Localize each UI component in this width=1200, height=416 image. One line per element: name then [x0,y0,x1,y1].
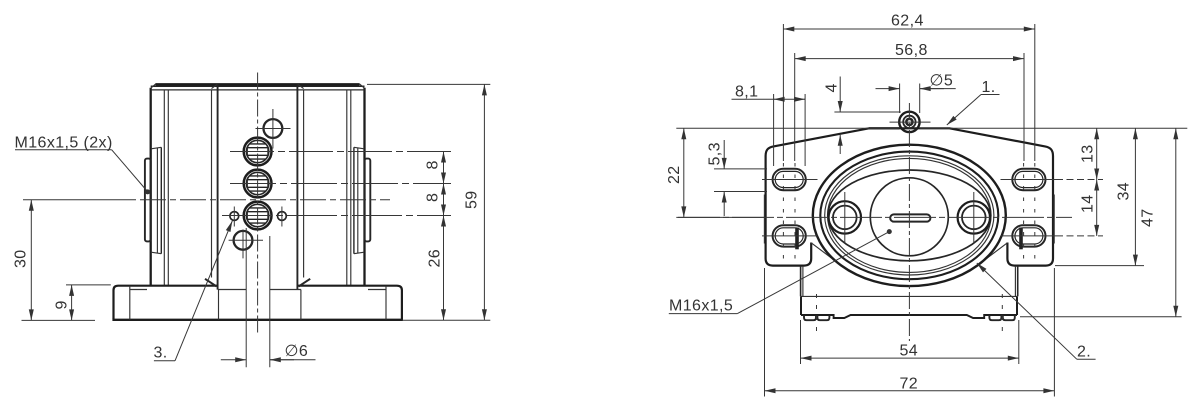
tiny circle left (3.) [230,212,239,221]
svg-text:M16x1,5 (2x): M16x1,5 (2x) [15,134,113,151]
dim 54 [801,320,1019,364]
flange plate outline [766,128,1053,265]
svg-text:8: 8 [425,193,442,202]
corner hole top-left [773,169,806,190]
base column sides [801,266,1018,296]
svg-text:∅5: ∅5 [930,73,954,90]
svg-text:2.: 2. [1077,344,1091,361]
dim 59 [367,84,490,320]
dim 56,8 [795,42,1024,161]
bottom small circle [234,231,253,250]
top boss phi5 [890,112,931,132]
dim 5,3 [707,140,768,216]
dim 13 [1080,128,1097,179]
dim 4 [824,77,901,155]
hole slot centerlines dashed [782,163,784,260]
svg-text:4: 4 [824,83,841,92]
left port circle [829,201,861,233]
svg-text:30: 30 [13,249,30,268]
svg-text:72: 72 [900,376,919,393]
dim phi5 [876,73,956,114]
dim 34 [1055,128,1144,265]
left flange edge doubling [763,195,765,244]
dim 8 lower [425,184,444,216]
right flange edge doubling [1053,195,1055,244]
label 3. [154,221,233,362]
slotted port circle 3 [244,202,272,230]
svg-text:8: 8 [425,160,442,169]
dim 47 [920,128,1188,317]
svg-text:5,3: 5,3 [707,142,724,165]
slotted port circle 1 [244,138,272,166]
base block [801,296,1017,320]
dim 22 [666,128,899,217]
feet centerlines [816,294,818,332]
svg-text:M16x1,5: M16x1,5 [669,298,733,315]
svg-text:56,8: 56,8 [895,42,928,59]
dim phi6 [221,343,316,360]
right side connector boss [354,147,370,253]
port circle vertical centerlines [844,192,846,243]
central slot [890,214,930,221]
main centerline horizontal [678,216,1072,218]
tiny circle right [278,212,287,221]
left rib line [811,243,846,269]
dim 8 upper [425,152,444,184]
dim 8,1 [732,84,806,167]
svg-text:8,1: 8,1 [735,84,758,101]
label 2. [977,263,1096,361]
right rib line [973,243,1008,269]
dim 26 [427,216,444,321]
centerline crosshairs [242,230,244,259]
dim 72 [765,268,1055,397]
oval ring 1 [813,145,1006,286]
housing body outline [151,84,365,286]
dim 14 [1056,180,1103,236]
svg-text:26: 26 [427,249,444,268]
right port circle [958,201,990,233]
svg-text:47: 47 [1140,208,1157,227]
left side connector boss M16 [145,147,161,253]
svg-text:54: 54 [900,343,919,360]
boss centerline [23,199,136,201]
dim 9 [54,285,111,321]
svg-text:3.: 3. [154,345,168,362]
label 1. [947,79,1000,125]
label M16x1,5 (2x) [15,134,151,194]
oval inner [828,170,991,261]
phi6 hole extension lines [245,228,247,367]
dim 62,4 [783,13,1035,162]
centerline vertical main [257,73,259,334]
oval ring 3 [825,156,994,275]
corner hole top-right [1012,169,1045,190]
base plate [112,279,403,320]
corner hole bottom-left [773,225,806,249]
slotted port circle 2 [244,170,272,198]
svg-text:14: 14 [1080,194,1097,213]
central circle (M16 boss face) [870,178,948,256]
dim 30 [13,200,96,321]
port centerlines / extension lines [230,151,451,153]
body inner vertical edges [164,84,350,289]
svg-text:22: 22 [666,165,683,184]
svg-text:9: 9 [54,300,71,309]
hole crosshairs [762,179,818,181]
svg-text:13: 13 [1080,144,1097,163]
svg-text:34: 34 [1116,182,1133,201]
oval ring 2 [820,152,998,280]
svg-text:∅6: ∅6 [285,343,309,360]
corner hole bottom-right [1012,225,1045,249]
label M16x1,5 [669,229,892,314]
svg-text:59: 59 [464,190,481,209]
oval ring 4 [828,158,992,272]
top small circle [264,119,283,138]
svg-text:1.: 1. [982,79,996,96]
svg-text:62,4: 62,4 [891,13,924,30]
main centerline vertical [908,103,910,341]
flange top flat segments behind boss [869,127,899,129]
